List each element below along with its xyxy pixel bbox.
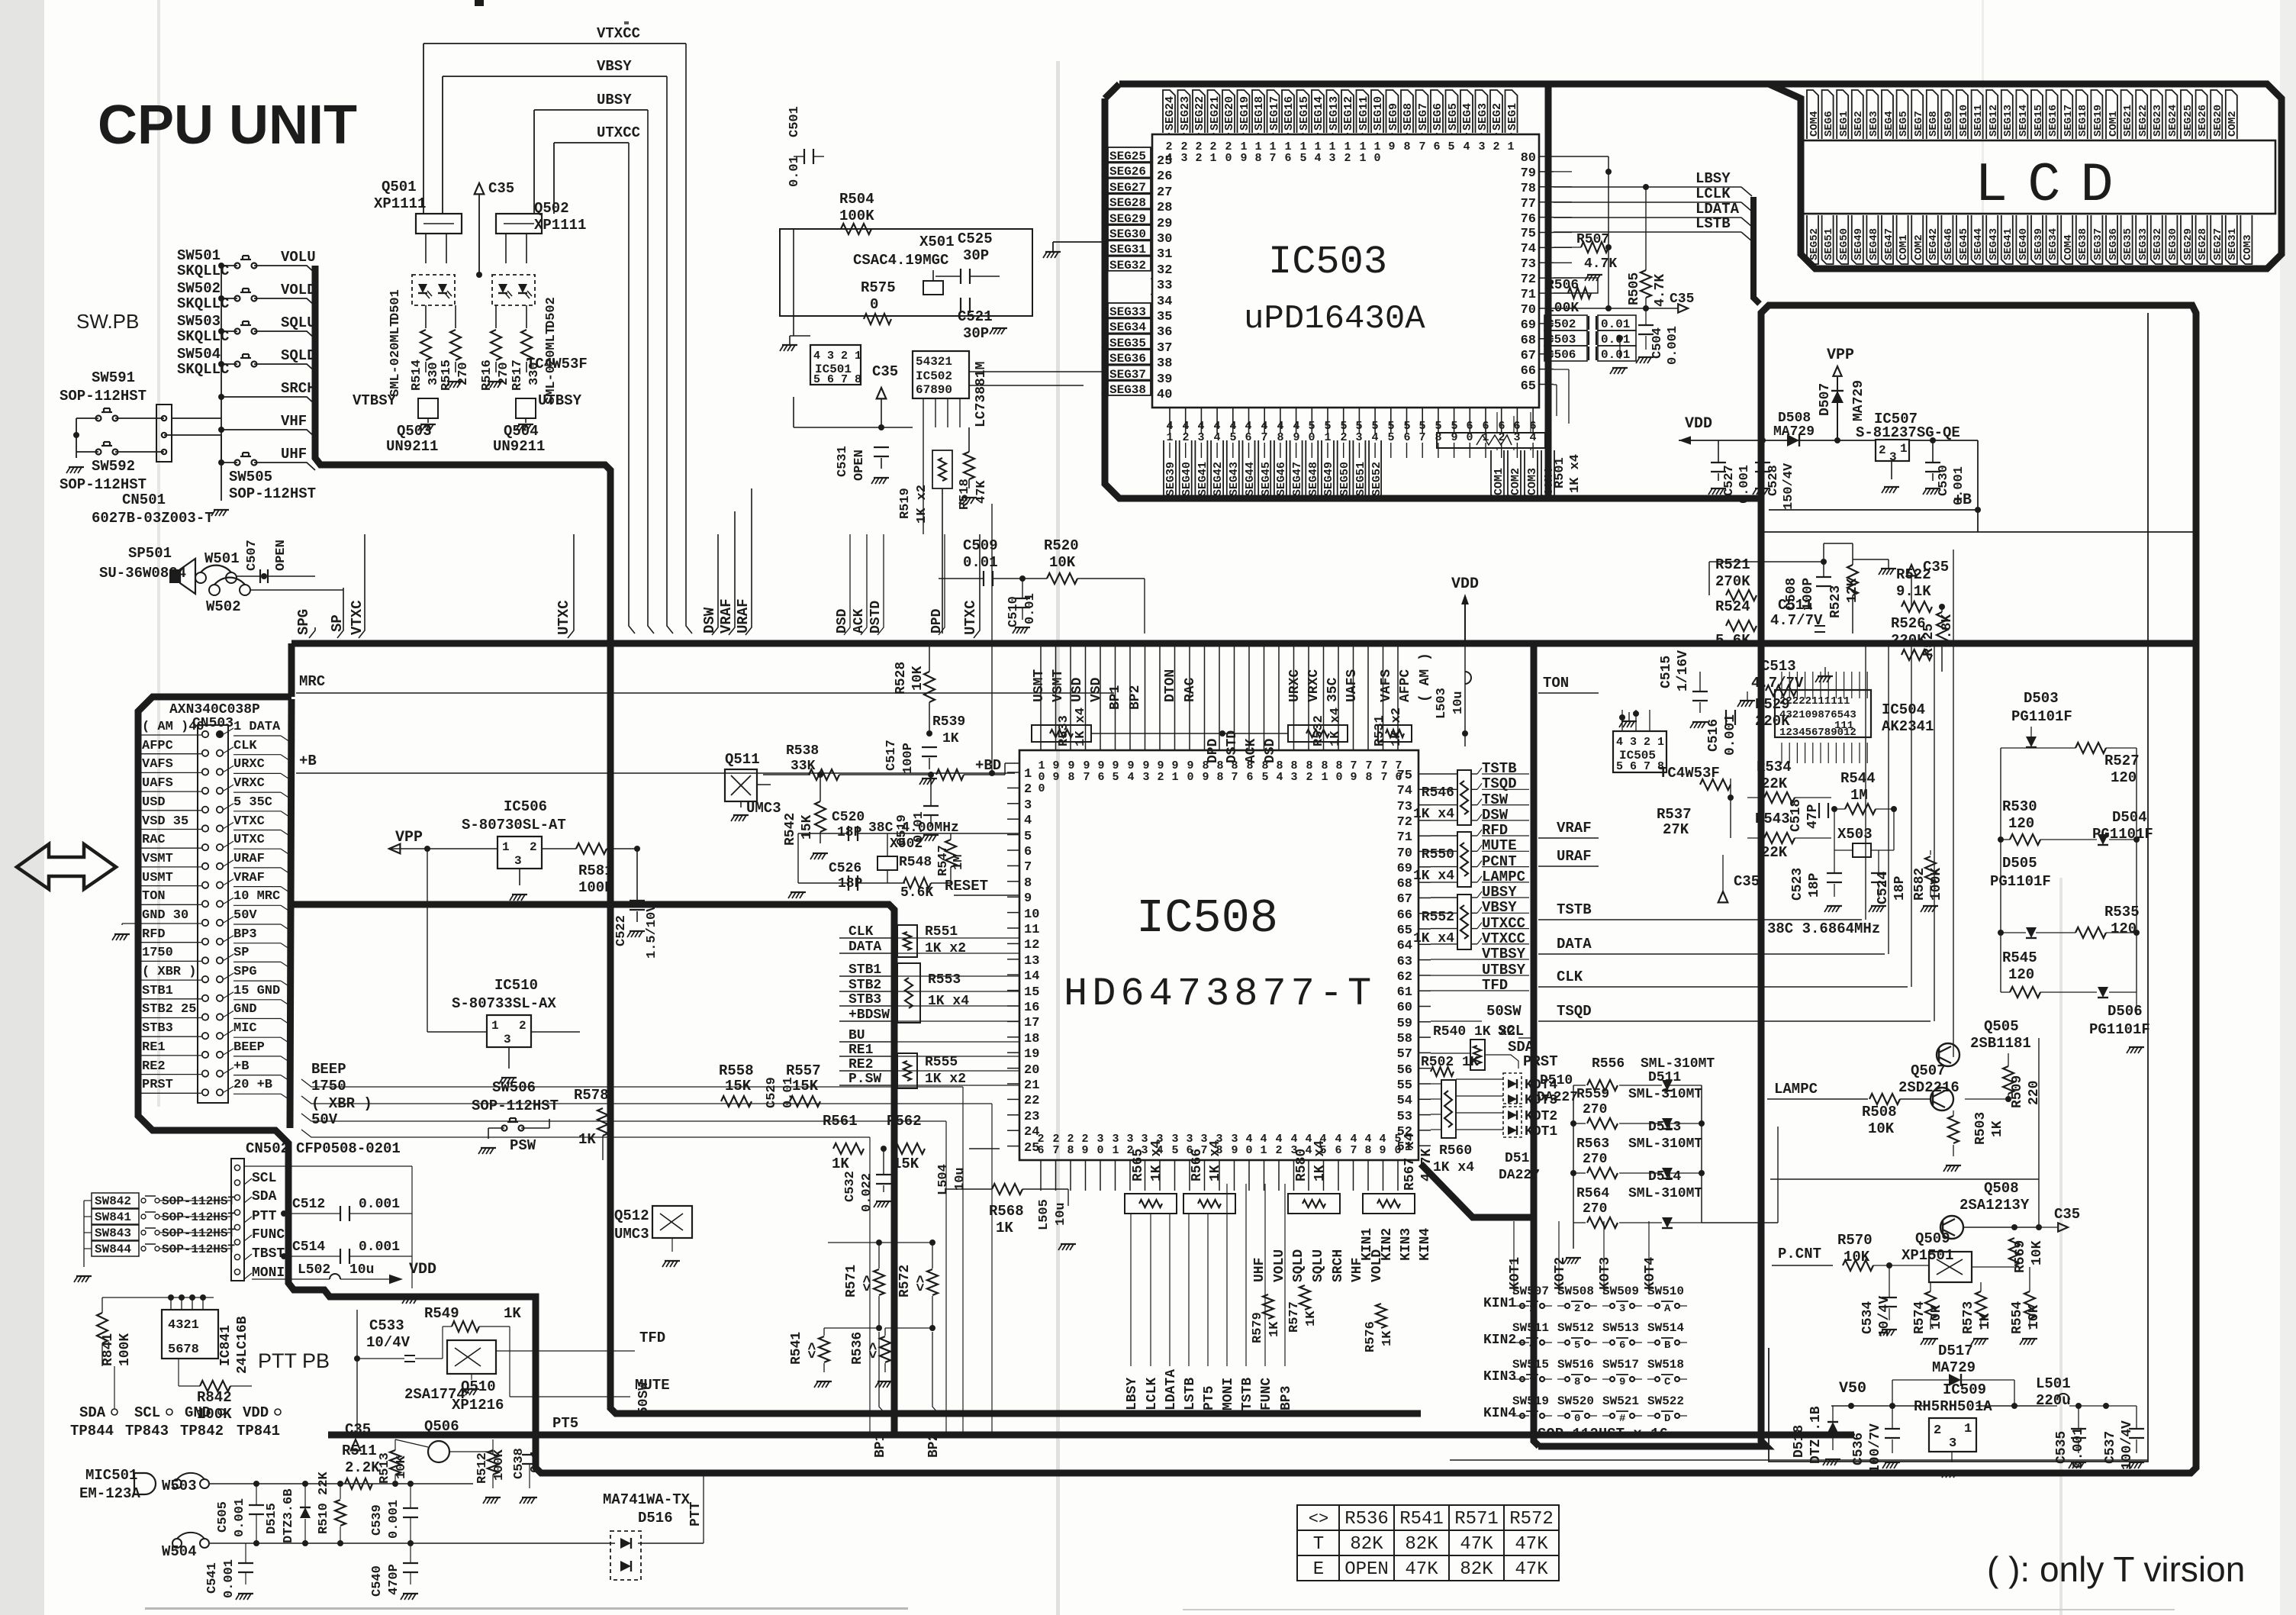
wire (1444, 1091, 1452, 1127)
wire (1885, 1428, 1900, 1430)
svg-text:PRST: PRST (142, 1078, 173, 1092)
svg-text:R559: R559 (1576, 1087, 1609, 1102)
wire (791, 345, 795, 351)
wire (519, 869, 520, 885)
svg-text:AK2341: AK2341 (1882, 718, 1934, 735)
svg-text:USMT: USMT (142, 871, 173, 885)
svg-text:0: 0 (1373, 152, 1380, 165)
wire (1980, 1319, 1982, 1330)
svg-text:7: 7 (1269, 152, 1276, 165)
wire (1358, 408, 1360, 434)
svg-text:SEG10: SEG10 (1958, 105, 1970, 137)
wire (1986, 90, 1998, 139)
wire (1001, 328, 1005, 334)
svg-text:SEG11: SEG11 (1357, 96, 1370, 131)
svg-text:R539: R539 (932, 714, 965, 730)
wire (790, 1096, 820, 1107)
svg-text:SEG13: SEG13 (2002, 105, 2014, 137)
svg-text:R533: R533 (1057, 715, 1071, 746)
svg-text:SEG7: SEG7 (1913, 111, 1925, 137)
svg-text:SW506: SW506 (492, 1079, 536, 1096)
wire (903, 878, 931, 888)
wire (1471, 866, 1477, 868)
wire (969, 385, 1084, 386)
svg-text:270K: 270K (1715, 573, 1750, 590)
diode (1662, 1168, 1673, 1178)
wire (1573, 1085, 1574, 1223)
svg-text:TSTB: TSTB (1482, 760, 1517, 777)
wire (1554, 217, 1572, 218)
wire (140, 772, 174, 773)
wire (1889, 1265, 1890, 1297)
wire (1007, 1130, 1019, 1131)
wire (244, 1273, 252, 1279)
wire (1961, 1379, 2014, 1381)
svg-text:SEG39: SEG39 (2033, 228, 2045, 260)
wire (1937, 612, 1947, 643)
wire (1450, 1459, 2148, 1461)
wire (418, 424, 422, 430)
svg-text:1K x2: 1K x2 (925, 941, 966, 956)
svg-text:0.001: 0.001 (359, 1239, 400, 1255)
wire (1943, 1219, 1955, 1225)
wire (1151, 278, 1152, 279)
wire (1007, 1083, 1019, 1085)
wire (525, 418, 527, 423)
wire (1040, 643, 1042, 750)
wire (1512, 1415, 1520, 1417)
wire (2045, 1405, 2057, 1407)
wire (2127, 1047, 2130, 1053)
diode (1662, 1217, 1673, 1228)
wire (288, 575, 315, 577)
wire (221, 330, 237, 332)
wire (2001, 747, 2031, 749)
wire (2071, 1428, 2086, 1430)
svg-text:82K: 82K (1405, 1534, 1438, 1555)
wire (1807, 215, 1818, 264)
wire (1900, 1098, 1931, 1100)
wire (1007, 787, 1019, 788)
svg-text:UTBSY: UTBSY (1482, 962, 1526, 978)
svg-text:SEG7: SEG7 (1417, 103, 1430, 131)
svg-text:TBST: TBST (252, 1246, 285, 1262)
wire (602, 1136, 604, 1160)
wire (1431, 943, 1457, 945)
svg-text:4: 4 (1127, 771, 1134, 784)
svg-text:10K: 10K (1049, 554, 1076, 571)
wire (1573, 1222, 1586, 1223)
wire (2136, 215, 2147, 264)
wire (1045, 251, 1061, 253)
wire (244, 1235, 252, 1241)
wire (301, 1096, 992, 1104)
wire (174, 848, 201, 853)
svg-text:DSTD: DSTD (1225, 730, 1240, 763)
wire (782, 344, 797, 346)
wire (315, 266, 1421, 1414)
wire (140, 1074, 174, 1075)
junction (1570, 1120, 1576, 1127)
wire (992, 1184, 1022, 1194)
svg-text:1: 1 (1260, 1144, 1267, 1157)
wire (1477, 923, 1482, 929)
svg-text:22222111111: 22222111111 (1779, 695, 1850, 708)
wire (1859, 672, 1860, 698)
svg-text:SW518: SW518 (1647, 1358, 1684, 1372)
wire (1164, 440, 1176, 500)
svg-text:PTT PB: PTT PB (258, 1349, 330, 1372)
wire (427, 1031, 487, 1033)
svg-text:6: 6 (1097, 771, 1104, 784)
wire (1538, 953, 1885, 955)
wire (1781, 743, 1782, 763)
wire (1015, 598, 1030, 599)
svg-text:TP844: TP844 (70, 1423, 114, 1439)
wire (935, 276, 961, 277)
svg-text:0: 0 (1245, 1144, 1252, 1157)
wire (1890, 1462, 1894, 1468)
wire (275, 298, 315, 306)
wire (1892, 1380, 1893, 1406)
wire (2040, 839, 2097, 840)
svg-text:VDD: VDD (1685, 415, 1712, 433)
wire (1007, 849, 1019, 851)
wire (1102, 240, 1108, 254)
wire (284, 1256, 340, 1257)
svg-text:D512: D512 (1505, 1151, 1538, 1166)
svg-text:COM1: COM1 (2108, 111, 2120, 137)
svg-text:VTXCC: VTXCC (597, 25, 640, 42)
wire (1471, 912, 1477, 914)
wire (174, 772, 201, 773)
wire (1602, 1378, 1610, 1380)
wire (1102, 381, 1108, 395)
wire (281, 1019, 290, 1025)
svg-text:LBSY: LBSY (1695, 170, 1731, 187)
wire (992, 571, 993, 586)
wire (447, 291, 452, 296)
wire (947, 398, 948, 427)
svg-text:9: 9 (1388, 140, 1395, 153)
svg-text:0.001: 0.001 (222, 1559, 237, 1598)
svg-text:8: 8 (1403, 140, 1410, 153)
svg-text:70: 70 (1521, 303, 1536, 318)
wire (1418, 882, 1431, 883)
wire (267, 569, 269, 583)
wire (1692, 691, 1708, 692)
svg-text:0.1: 0.1 (529, 1449, 543, 1473)
wire (1526, 1374, 1538, 1375)
wire (848, 826, 849, 841)
wire (1151, 294, 1152, 295)
svg-text:2: 2 (1934, 1423, 1941, 1438)
svg-text:PCNT: PCNT (1482, 853, 1517, 870)
wire (115, 417, 164, 419)
wire (410, 1543, 411, 1563)
wire (2130, 1047, 2134, 1053)
svg-text:R572: R572 (1509, 1509, 1554, 1530)
svg-text:75: 75 (1521, 227, 1536, 241)
wire (627, 931, 631, 937)
wire (430, 424, 433, 430)
wire (1193, 90, 1205, 133)
svg-text:4: 4 (1276, 771, 1283, 784)
wire (1939, 1057, 1951, 1063)
svg-text:XP1216: XP1216 (452, 1397, 504, 1414)
wire (472, 1484, 474, 1543)
wire (140, 1055, 174, 1056)
wire (923, 814, 939, 816)
svg-text:C35: C35 (872, 363, 898, 380)
svg-text:RE1: RE1 (142, 1040, 166, 1055)
wire (1491, 450, 1504, 499)
wire (269, 575, 288, 577)
wire (1589, 1415, 1597, 1417)
junction (302, 1481, 308, 1487)
svg-text:UHF: UHF (1252, 1258, 1267, 1282)
svg-text:DA227: DA227 (1537, 1090, 1578, 1105)
svg-text:SEG40: SEG40 (2017, 228, 2030, 260)
svg-text:UHF: UHF (281, 446, 307, 463)
wire (245, 1543, 246, 1563)
svg-text:47K: 47K (974, 480, 989, 504)
svg-text:7: 7 (1350, 1144, 1357, 1157)
diode (1827, 1422, 1838, 1433)
wire (1005, 762, 1019, 764)
wire (1055, 643, 1057, 750)
wire (990, 328, 993, 334)
wire (122, 923, 140, 924)
wire (1083, 385, 1084, 427)
wire (1557, 1342, 1565, 1343)
wire (244, 1165, 412, 1167)
wire (1638, 356, 1654, 358)
wire (1711, 462, 1726, 463)
wire (885, 1201, 889, 1207)
wire (1948, 1116, 1959, 1143)
wire (1986, 215, 1998, 264)
junction (878, 424, 884, 430)
svg-text:3: 3 (1290, 771, 1297, 784)
wire (1539, 156, 1554, 157)
wire (1795, 837, 1831, 839)
svg-text:24LC16B: 24LC16B (235, 1316, 250, 1374)
wire (1634, 1415, 1642, 1417)
wire (349, 1213, 412, 1214)
wire (104, 408, 110, 409)
wire (195, 575, 200, 577)
wire (2001, 215, 2013, 264)
svg-text:72: 72 (1397, 815, 1412, 830)
wire (1837, 215, 1848, 264)
wire (1631, 721, 1634, 727)
svg-text:D511: D511 (1648, 1070, 1681, 1085)
svg-text:CN502: CN502 (246, 1140, 289, 1157)
wire (1007, 974, 1019, 975)
svg-text:VPP: VPP (1827, 347, 1854, 364)
wire (1516, 1079, 1518, 1088)
wire (1538, 692, 1599, 694)
svg-text:D501: D501 (388, 289, 403, 321)
junction (817, 772, 823, 778)
wire (281, 868, 290, 874)
svg-text:3: 3 (514, 854, 522, 868)
junction (407, 1481, 414, 1487)
wire (493, 1433, 565, 1434)
svg-text:SW512: SW512 (1557, 1321, 1594, 1335)
wire (1293, 643, 1295, 750)
wire (1512, 1305, 1520, 1307)
wire (242, 321, 243, 325)
wire (2031, 747, 2075, 749)
wire (1620, 322, 1636, 324)
wire (101, 445, 112, 446)
wire (1575, 1258, 1579, 1264)
wire (1418, 1068, 1431, 1069)
wire (240, 357, 251, 359)
wire (296, 692, 1114, 694)
wire (1757, 488, 1760, 495)
svg-text:SEG19: SEG19 (1238, 96, 1251, 131)
wire (281, 943, 290, 949)
wire (1280, 408, 1281, 434)
wire (1204, 643, 1206, 750)
wire (1699, 672, 1701, 691)
wire (932, 1243, 933, 1268)
wire (1971, 1339, 1975, 1345)
svg-text:SOP-112HST: SOP-112HST (162, 1194, 235, 1208)
wire (1024, 627, 1028, 633)
wire (1573, 1172, 1586, 1174)
svg-text:8: 8 (1024, 876, 1032, 891)
svg-text:SEG21: SEG21 (1209, 96, 1222, 131)
wire (1418, 788, 1431, 790)
wire (174, 734, 201, 736)
wire (174, 753, 201, 755)
svg-text:SEG47: SEG47 (1291, 462, 1304, 496)
wire (1211, 440, 1223, 500)
wire (2026, 746, 2037, 748)
svg-text:100/7V: 100/7V (1868, 1423, 1883, 1473)
wire (1832, 906, 1836, 912)
wire (248, 354, 250, 358)
junction (218, 459, 224, 466)
wire (174, 811, 201, 816)
wire (939, 578, 984, 579)
wire (501, 1077, 517, 1078)
wire (1151, 216, 1152, 218)
wire (1953, 1145, 1954, 1156)
svg-text:6027B-03Z003-T: 6027B-03Z003-T (92, 510, 214, 527)
wire (2075, 743, 2106, 753)
svg-text:X502: X502 (890, 837, 923, 852)
svg-text:STB2 25: STB2 25 (142, 1002, 196, 1017)
wire (1702, 722, 1705, 728)
wire (871, 478, 875, 484)
svg-text:1: 1 (1507, 140, 1514, 153)
svg-text:6: 6 (1024, 845, 1032, 859)
wire (181, 1297, 182, 1310)
svg-text:R510 22K: R510 22K (317, 1472, 331, 1534)
wire (404, 1594, 408, 1600)
svg-text:78: 78 (1521, 182, 1536, 196)
wire (174, 904, 201, 905)
svg-text:38C 3.6864MHz: 38C 3.6864MHz (1767, 920, 1880, 937)
junction (253, 1481, 259, 1487)
wire (509, 1326, 510, 1397)
svg-text:5 6 7 8: 5 6 7 8 (1616, 760, 1664, 773)
wire (2031, 1339, 2035, 1345)
wire (1679, 1305, 1687, 1307)
wire (418, 292, 427, 294)
wire (174, 885, 201, 887)
wire (254, 298, 275, 299)
svg-text:C517: C517 (884, 740, 899, 771)
wire (1823, 676, 1827, 682)
wire (473, 1542, 615, 1544)
wire (1390, 408, 1392, 434)
svg-text:( AM )40: ( AM )40 (142, 720, 204, 734)
wire (1105, 98, 1761, 498)
wire (281, 773, 290, 779)
wire (510, 1078, 514, 1084)
wire (233, 924, 281, 925)
wire (1822, 215, 1834, 264)
junction (1831, 806, 1837, 812)
wire (450, 330, 461, 360)
svg-text:TC4W53F: TC4W53F (527, 356, 588, 372)
svg-text:47K: 47K (1515, 1559, 1548, 1580)
svg-text:UTXCC: UTXCC (597, 124, 640, 141)
wire (1051, 252, 1055, 258)
svg-text:1K x4: 1K x4 (1312, 1140, 1328, 1181)
svg-text:63: 63 (1397, 955, 1412, 969)
wire (1185, 408, 1187, 434)
wire (1976, 1405, 2045, 1407)
wire (861, 534, 867, 635)
wire (1608, 247, 1618, 248)
wire (1431, 804, 1457, 806)
wire (1866, 90, 1878, 139)
wire (1891, 461, 1892, 479)
wire (929, 758, 930, 769)
wire (420, 424, 436, 425)
wire (1698, 722, 1702, 728)
wire (526, 362, 527, 372)
wire (939, 534, 945, 635)
wire (174, 810, 201, 811)
wire (224, 1049, 233, 1055)
svg-text:( XBR ): ( XBR ) (142, 965, 196, 979)
svg-text:VDD: VDD (1451, 575, 1479, 593)
wire (390, 1450, 401, 1475)
wire (2010, 834, 2040, 845)
wire (1532, 443, 1534, 446)
svg-text:C501: C501 (787, 106, 802, 137)
wire (1007, 927, 1019, 929)
wire (242, 289, 243, 292)
wire (389, 844, 400, 854)
wire (1973, 1338, 1988, 1339)
wire (1264, 1184, 1266, 1366)
wire (1501, 408, 1502, 434)
wire (455, 1348, 481, 1366)
svg-text:SEG48: SEG48 (1868, 228, 1880, 260)
wire (1248, 443, 1250, 458)
wire (281, 924, 290, 930)
wire (1851, 672, 1853, 698)
